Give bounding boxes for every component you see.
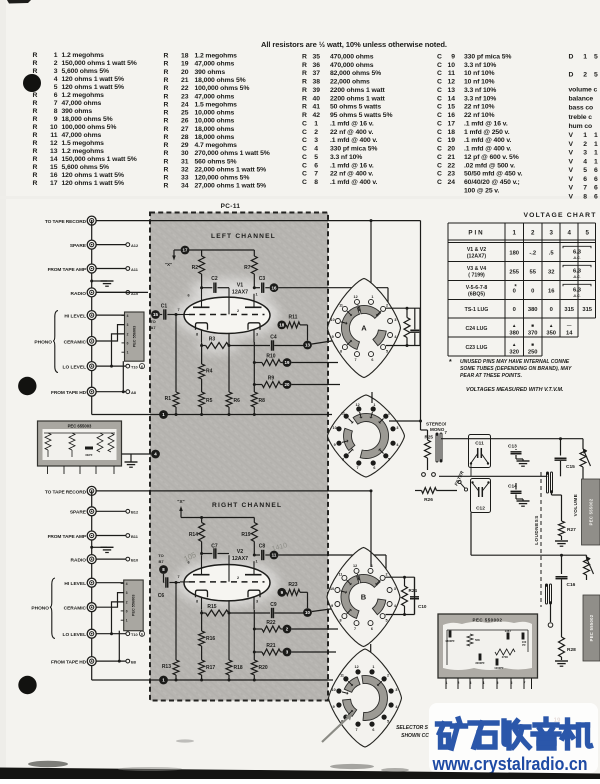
svg-text:21: 21 (181, 77, 189, 84)
svg-text:All resistors are ½ watt, 10%: All resistors are ½ watt, 10% unless oth… (261, 40, 447, 49)
svg-text:2: 2 (314, 129, 318, 136)
tube V1 label (232, 283, 248, 296)
svg-text:R: R (33, 116, 38, 123)
svg-text:2: 2 (388, 412, 390, 416)
svg-text:R: R (302, 112, 307, 119)
svg-text:R9: R9 (268, 376, 275, 382)
svg-text:4: 4 (483, 681, 485, 685)
PC-11 printed circuit board region (150, 203, 328, 701)
input jack FROM TAPE AMP (lower), pad B11 (48, 531, 139, 540)
svg-text:23: 23 (447, 171, 455, 178)
svg-text:10,000 ohms: 10,000 ohms (195, 110, 235, 117)
wire: filter row (439, 475, 548, 477)
svg-text:C: C (437, 62, 442, 69)
svg-text:19: 19 (447, 137, 455, 144)
svg-text:▲: ▲ (512, 342, 517, 347)
parts list column 1 (R1-R17) (33, 52, 137, 187)
capacitor C11 (filter) (469, 435, 491, 477)
svg-text:VOLTAGES MEASURED WITH V.T.: VOLTAGES MEASURED WITH V.T.V.M. (466, 387, 564, 393)
svg-text:R: R (33, 92, 38, 99)
capacitor C2 (200, 276, 229, 293)
input jack FROM TAPE HD (lower), pad B8 (51, 657, 137, 666)
capacitor C5 (socket A network) (410, 308, 419, 345)
svg-text:3: 3 (126, 591, 128, 595)
svg-text:13: 13 (305, 343, 310, 348)
svg-text:7: 7 (177, 575, 179, 579)
svg-text:C2: C2 (211, 276, 218, 282)
svg-text:2: 2 (531, 230, 535, 237)
svg-text:R20: R20 (259, 665, 268, 671)
svg-text:PEC 655003: PEC 655003 (68, 424, 92, 429)
svg-text:9: 9 (54, 116, 58, 123)
wire: lower tape record to socket B (92, 491, 371, 680)
svg-text:R: R (302, 87, 307, 94)
svg-text:3: 3 (54, 68, 58, 75)
input jack FROM TAPE AMP (upper), pad A11 (48, 264, 139, 273)
svg-text:A10: A10 (131, 291, 138, 296)
svg-text:V: V (569, 176, 574, 183)
wires: upper phono jacks to PEC 556003 (96, 325, 125, 394)
PEC 555002 module (volume) (582, 479, 600, 545)
svg-text:3: 3 (470, 681, 472, 685)
svg-text:120 ohms 1 watt 5%: 120 ohms 1 watt 5% (62, 84, 124, 91)
svg-text:LO LEVEL: LO LEVEL (63, 365, 87, 371)
svg-text:13: 13 (50, 148, 58, 155)
resistor R16 (199, 613, 216, 660)
svg-text:320: 320 (509, 350, 519, 356)
svg-text:5: 5 (54, 84, 58, 91)
svg-text:1.2 megohms: 1.2 megohms (195, 53, 238, 60)
svg-text:SOME TUBES (DEPENDING ON BRAND: SOME TUBES (DEPENDING ON BRAND), MAY (460, 366, 572, 372)
capacitor C10 (socket B network) (410, 577, 427, 614)
svg-text:17: 17 (50, 180, 58, 187)
svg-text:—: — (567, 323, 572, 328)
svg-text:R: R (33, 148, 38, 155)
svg-text:SELECTOR S: SELECTOR S (396, 725, 429, 731)
svg-text:6: 6 (371, 627, 373, 631)
svg-text:TO: TO (150, 319, 155, 324)
svg-text:C24 LUG: C24 LUG (466, 326, 488, 332)
svg-text:2: 2 (387, 674, 389, 678)
svg-text:8: 8 (339, 618, 341, 622)
svg-text:balance: balance (569, 96, 594, 103)
svg-text:7: 7 (583, 185, 587, 192)
svg-text:CERAMIC: CERAMIC (64, 606, 87, 612)
svg-text:19: 19 (181, 61, 189, 68)
svg-text:1: 1 (583, 54, 587, 61)
node 18 (277, 321, 286, 330)
svg-text:UNUSED PINS MAY HAVE INTERNAL: UNUSED PINS MAY HAVE INTERNAL CONNE (460, 359, 570, 365)
node 4 and ground (122, 450, 160, 468)
selector wiper arrow (pencil) (322, 713, 353, 742)
svg-text:1: 1 (594, 132, 598, 139)
svg-text:18: 18 (279, 323, 284, 328)
svg-text:27,000 ohms 1 watt 5%: 27,000 ohms 1 watt 5% (195, 183, 267, 190)
input jack TO TAPE RECORD (upper) (45, 216, 96, 225)
svg-text:560 ohms 5%: 560 ohms 5% (195, 158, 237, 165)
svg-text:22 nf @ 400 v.: 22 nf @ 400 v. (330, 129, 373, 136)
svg-text:T10: T10 (131, 632, 138, 637)
svg-text:5: 5 (388, 457, 390, 461)
svg-text:PEC 555002: PEC 555002 (588, 498, 593, 525)
svg-text:17: 17 (183, 248, 188, 253)
capacitor C14 (508, 483, 530, 506)
svg-text:42: 42 (312, 112, 320, 119)
svg-text:R: R (164, 175, 169, 182)
svg-text:3: 3 (394, 587, 396, 591)
svg-text:V: V (569, 158, 574, 165)
svg-text:4: 4 (127, 314, 129, 318)
svg-text:1.5 megohms: 1.5 megohms (195, 101, 238, 108)
resistor R19 (241, 518, 257, 556)
node 1 and ground bus (left channel) (92, 410, 332, 419)
svg-text:V: V (569, 141, 574, 148)
svg-text:5: 5 (314, 154, 318, 161)
svg-text:LEFT CHANNEL: LEFT CHANNEL (211, 233, 276, 240)
PHONO group brace (upper) (34, 311, 58, 373)
svg-text:2: 2 (583, 141, 587, 148)
svg-text:R1: R1 (165, 396, 172, 402)
svg-text:3.3 nf 10%: 3.3 nf 10% (464, 87, 496, 94)
svg-text:6.3: 6.3 (573, 268, 582, 274)
svg-text:▲: ▲ (512, 323, 517, 328)
svg-text:"X": "X" (177, 499, 184, 504)
svg-text:0: 0 (513, 307, 516, 313)
svg-text:2200 ohms 1 watt: 2200 ohms 1 watt (330, 95, 386, 102)
svg-text:1.2 megohms: 1.2 megohms (62, 148, 105, 155)
svg-text:330 pf mica 5%: 330 pf mica 5% (330, 146, 377, 153)
input jack HI LEVEL (upper) (64, 311, 124, 320)
svg-text:120 ohms 1 watt 5%: 120 ohms 1 watt 5% (62, 76, 124, 83)
svg-text:2: 2 (386, 304, 388, 308)
svg-text:VOLTAGE CHART: VOLTAGE CHART (523, 212, 596, 219)
svg-text:5,600 ohms 5%: 5,600 ohms 5% (62, 68, 109, 75)
svg-text:12 pf @ 600 v. 5%: 12 pf @ 600 v. 5% (464, 154, 519, 161)
svg-text:370: 370 (528, 331, 538, 337)
svg-text:27: 27 (181, 126, 189, 133)
svg-text:1: 1 (126, 619, 128, 623)
svg-text:100,000 ohms 5%: 100,000 ohms 5% (195, 85, 250, 92)
svg-text:4: 4 (126, 582, 128, 586)
svg-text:C: C (302, 120, 307, 127)
svg-text:20: 20 (285, 382, 290, 387)
svg-text:29: 29 (181, 142, 189, 149)
svg-text:270K: 270K (502, 655, 508, 659)
svg-text:V: V (569, 185, 574, 192)
svg-text:40: 40 (312, 95, 320, 102)
STEREO/MONO switch and resistor R25 (421, 422, 448, 471)
left channel label (211, 233, 276, 240)
svg-text:11: 11 (50, 132, 57, 139)
PEC 555002 module (balance) (583, 595, 600, 661)
svg-text:19: 19 (285, 360, 290, 365)
svg-text:12: 12 (356, 403, 360, 407)
svg-text:9: 9 (333, 705, 335, 709)
svg-text:10: 10 (333, 426, 337, 430)
svg-text:C: C (302, 146, 307, 153)
svg-text:47,000 ohms: 47,000 ohms (62, 100, 102, 107)
node 8, TO B7 (158, 553, 168, 583)
svg-text:3: 3 (549, 230, 553, 237)
svg-text:18,000 ohms 5%: 18,000 ohms 5% (195, 77, 246, 84)
svg-text:FROM TAPE HD: FROM TAPE HD (51, 390, 87, 396)
svg-text:22 nf 10%: 22 nf 10% (464, 104, 495, 111)
svg-text:10: 10 (330, 587, 334, 591)
svg-text:3: 3 (256, 600, 258, 604)
svg-text:10: 10 (331, 318, 335, 322)
svg-text:R15: R15 (207, 604, 216, 610)
svg-text:8: 8 (196, 600, 198, 604)
right channel label (212, 502, 282, 509)
svg-text:R24: R24 (409, 588, 418, 593)
svg-text:"X": "X" (165, 262, 172, 267)
svg-text:7: 7 (354, 627, 356, 631)
svg-text:RIGHT CHANNEL: RIGHT CHANNEL (212, 502, 282, 509)
input jack FROM TAPE HD (upper), pad A8 (51, 387, 137, 396)
svg-text:1.2 megohms: 1.2 megohms (62, 92, 105, 99)
capacitor C6 (158, 577, 180, 599)
svg-text:C4: C4 (270, 335, 277, 341)
svg-text:bass co: bass co (569, 105, 594, 112)
capacitor C13 (508, 444, 530, 467)
wire: loudness row to balance pot (471, 513, 587, 557)
svg-text:R27: R27 (567, 527, 576, 533)
svg-text:www.crystalradio.cn: www.crystalradio.cn (432, 753, 588, 774)
svg-text:R7: R7 (244, 265, 251, 271)
svg-text:1: 1 (583, 132, 587, 139)
svg-text:150,000 ohms 1 watt 5%: 150,000 ohms 1 watt 5% (62, 60, 137, 67)
svg-text:V: V (569, 150, 574, 157)
svg-text:C: C (302, 179, 307, 186)
svg-text:47,000 ohms: 47,000 ohms (195, 61, 235, 68)
svg-text:C: C (437, 154, 442, 161)
svg-text:C: C (437, 120, 442, 127)
capacitor C4 (270, 335, 307, 351)
svg-text:HI LEVEL: HI LEVEL (64, 314, 86, 320)
svg-text:R: R (302, 104, 307, 111)
svg-text:1.2 megohms: 1.2 megohms (62, 52, 105, 59)
loudness switch 2 (545, 584, 552, 604)
resistor R2 (192, 250, 205, 288)
svg-text:B7: B7 (158, 559, 164, 564)
svg-text:LO LEVEL: LO LEVEL (63, 632, 87, 638)
svg-text:3: 3 (127, 323, 129, 327)
svg-text:17: 17 (447, 120, 455, 127)
svg-text:31: 31 (181, 158, 189, 165)
svg-text:250: 250 (528, 350, 538, 356)
svg-text:4: 4 (314, 146, 318, 153)
svg-text:3.3 nf 10%: 3.3 nf 10% (464, 95, 496, 102)
svg-text:15: 15 (153, 312, 158, 317)
svg-text:treble c: treble c (569, 114, 593, 121)
svg-text:R: R (164, 85, 169, 92)
svg-text:R22: R22 (266, 620, 275, 626)
svg-text:D: D (569, 54, 574, 61)
svg-text:12: 12 (354, 295, 358, 299)
svg-text:9: 9 (331, 604, 333, 608)
svg-text:6: 6 (372, 728, 374, 732)
PHONO group brace (lower) (31, 578, 55, 639)
svg-text:22,000 ohms: 22,000 ohms (330, 79, 370, 86)
VOLUME label (573, 494, 578, 517)
svg-text:R: R (33, 60, 38, 67)
svg-text:5: 5 (386, 349, 388, 353)
svg-text:R: R (33, 52, 38, 59)
volume potentiometer (580, 439, 591, 479)
svg-text:1: 1 (371, 295, 373, 299)
svg-text:1: 1 (255, 560, 257, 564)
svg-text:14: 14 (50, 156, 58, 163)
svg-text:R: R (164, 126, 169, 133)
svg-text:2: 2 (237, 309, 239, 313)
svg-text:R: R (164, 118, 169, 125)
svg-text:R3: R3 (209, 337, 216, 343)
svg-text:13: 13 (447, 87, 455, 94)
node 3 (283, 648, 336, 657)
svg-text:120 ohms 1 watt 5%: 120 ohms 1 watt 5% (62, 172, 124, 179)
svg-text:LOUDNESS: LOUDNESS (534, 515, 539, 545)
svg-text:PEAR AT THESE POINTS.: PEAR AT THESE POINTS. (460, 373, 522, 379)
svg-text:V1 & V2: V1 & V2 (467, 247, 486, 253)
svg-text:6.3: 6.3 (573, 287, 582, 293)
resistor R28 (555, 604, 576, 666)
svg-text:V: V (569, 167, 574, 174)
svg-text:TS-1 LUG: TS-1 LUG (465, 307, 489, 313)
svg-text:55: 55 (529, 269, 536, 275)
svg-text:4: 4 (583, 158, 587, 165)
resistor R18 (226, 601, 243, 680)
svg-text:TO TAPE RECORD: TO TAPE RECORD (45, 219, 87, 225)
wire: socket V3 to switch column (372, 392, 422, 423)
svg-text:18: 18 (447, 129, 455, 136)
svg-text:C: C (437, 137, 442, 144)
resistor R11 (286, 315, 307, 341)
watermark URL (432, 753, 588, 774)
svg-text:C: C (437, 146, 442, 153)
svg-text:3: 3 (583, 150, 587, 157)
input jack LO LEVEL (lower), pad T10 (63, 629, 145, 638)
svg-text:9: 9 (451, 54, 455, 61)
node 16 (270, 283, 388, 306)
svg-text:60/40/20 @ 450 v.;: 60/40/20 @ 450 v.; (464, 179, 520, 186)
input jack RADIO (lower), pad B10 (71, 555, 139, 564)
svg-text:6: 6 (371, 358, 373, 362)
svg-text:56K: 56K (475, 638, 480, 642)
svg-text:.1 mfd @ 400 v.: .1 mfd @ 400 v. (464, 146, 512, 153)
svg-text:B: B (361, 593, 367, 602)
svg-text:C: C (302, 129, 307, 136)
svg-text:24: 24 (447, 179, 455, 186)
svg-text:PC-11: PC-11 (221, 203, 241, 210)
svg-text:8: 8 (583, 193, 587, 200)
pencil mark 105 (182, 550, 197, 563)
svg-text:8: 8 (196, 332, 198, 336)
svg-text:SPARE: SPARE (70, 510, 87, 516)
svg-text:26: 26 (181, 118, 189, 125)
svg-text:C12: C12 (476, 506, 485, 512)
svg-text:V2: V2 (237, 549, 244, 555)
svg-text:T10: T10 (131, 365, 138, 370)
svg-text:SHOWN CC: SHOWN CC (401, 733, 429, 739)
svg-text:11: 11 (339, 573, 343, 577)
tube socket B (327, 548, 400, 647)
tube V2 label (232, 549, 248, 562)
svg-text:R14: R14 (189, 532, 198, 538)
svg-text:20: 20 (181, 69, 189, 76)
svg-text:180: 180 (509, 250, 519, 256)
svg-text:6: 6 (141, 365, 143, 369)
svg-text:4: 4 (567, 230, 571, 237)
svg-text:47,000 ohms: 47,000 ohms (62, 132, 102, 139)
svg-text:R6: R6 (234, 398, 241, 404)
svg-text:C: C (437, 179, 442, 186)
svg-text:6: 6 (594, 176, 598, 183)
svg-text:R8: R8 (259, 398, 266, 404)
svg-text:C6: C6 (158, 593, 165, 599)
capacitor C15 (555, 439, 576, 477)
svg-text:C13: C13 (508, 444, 517, 450)
svg-text:0: 0 (531, 288, 534, 294)
svg-text:R10: R10 (266, 354, 275, 360)
svg-text:41: 41 (312, 104, 320, 111)
svg-text:PIN: PIN (468, 230, 484, 237)
svg-text:PEC 556003: PEC 556003 (133, 326, 137, 348)
svg-text:R16: R16 (206, 636, 215, 642)
svg-text:R: R (302, 79, 307, 86)
svg-text:270,000 ohms 1 watt 5%: 270,000 ohms 1 watt 5% (195, 150, 270, 157)
svg-text:R: R (33, 124, 38, 131)
svg-text:12AX7: 12AX7 (232, 556, 248, 562)
svg-text:R: R (164, 101, 169, 108)
svg-text:0: 0 (127, 341, 129, 345)
svg-text:315: 315 (564, 307, 574, 313)
input jack LO LEVEL (upper), pad T10 (63, 362, 145, 371)
svg-text:R: R (164, 69, 169, 76)
svg-text:( 7199): ( 7199) (468, 272, 485, 278)
svg-text:C15: C15 (566, 464, 575, 470)
svg-text:■: ■ (531, 323, 534, 328)
svg-text:15: 15 (447, 104, 455, 111)
resistor R23 (286, 582, 307, 608)
svg-text:7: 7 (356, 728, 358, 732)
svg-text:2: 2 (237, 576, 239, 580)
svg-text:3: 3 (396, 426, 398, 430)
svg-text:C11: C11 (475, 441, 484, 447)
svg-text:12: 12 (50, 140, 58, 147)
svg-text:.1 mfd @ 400 v.: .1 mfd @ 400 v. (330, 137, 378, 144)
svg-text:11: 11 (340, 674, 344, 678)
svg-text:1 mfd @ 250 v.: 1 mfd @ 250 v. (464, 129, 510, 136)
svg-text:R: R (164, 166, 169, 173)
svg-text:C: C (437, 171, 442, 178)
svg-text:PEC 550002: PEC 550002 (473, 618, 503, 623)
svg-text:1.5 megohms: 1.5 megohms (62, 140, 105, 147)
svg-text:150,000 ohms 1 watt 5%: 150,000 ohms 1 watt 5% (62, 156, 137, 163)
svg-text:6: 6 (373, 466, 375, 470)
resistor R22 (253, 620, 283, 632)
svg-text:36: 36 (312, 62, 320, 69)
wire: lower record bus to socket B pin 1 (370, 489, 373, 567)
svg-text:PEC 556003: PEC 556003 (132, 595, 136, 617)
resistor R26 (415, 473, 457, 503)
node 9 (277, 588, 286, 597)
resistor R17 (199, 660, 216, 680)
capacitor C7 (200, 544, 229, 559)
node 1 and ground bus (right channel) (92, 676, 333, 685)
svg-text:2: 2 (458, 681, 460, 685)
svg-text:B8: B8 (131, 660, 137, 665)
resistor R14 (189, 516, 205, 554)
